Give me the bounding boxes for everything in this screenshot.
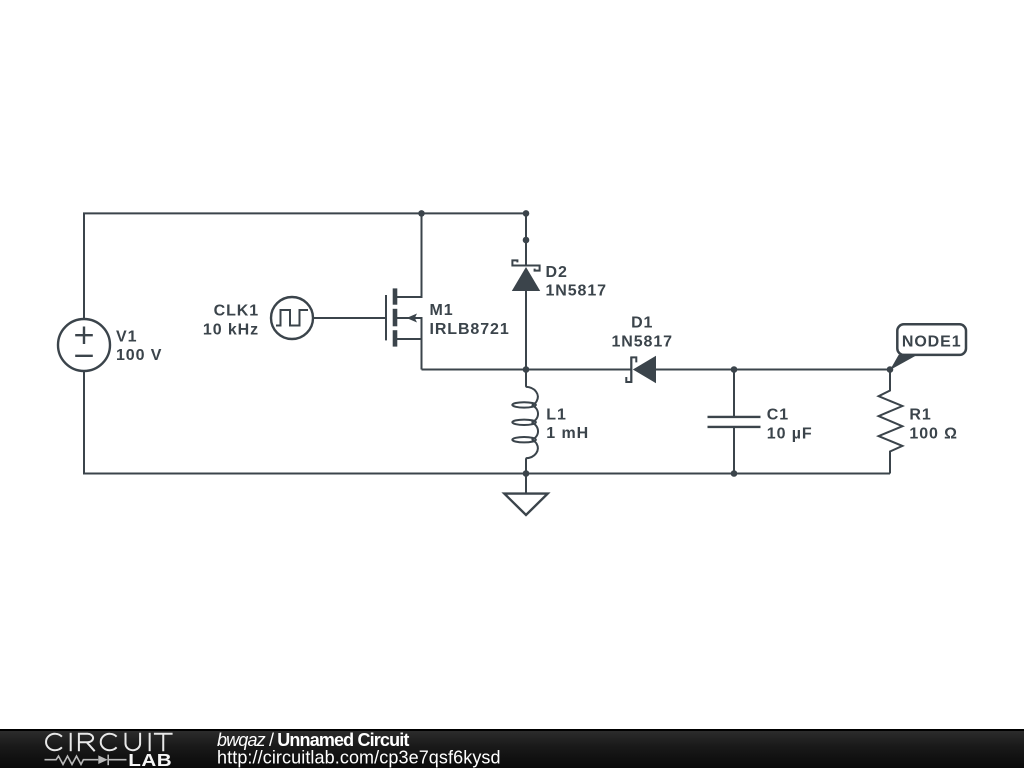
svg-text:D1: D1	[631, 314, 653, 331]
svg-text:NODE1: NODE1	[902, 334, 962, 351]
svg-text:1 mH: 1 mH	[546, 425, 589, 442]
diode D1	[626, 356, 656, 383]
wire top rail	[84, 213, 526, 319]
logo wire art	[45, 755, 127, 766]
junction C1 top	[731, 366, 738, 373]
voltage source V1	[58, 319, 110, 371]
svg-text:http://circuitlab.com/cp3e7qsf: http://circuitlab.com/cp3e7qsf6kysd	[217, 748, 501, 768]
junction L1 bottom / ground	[523, 470, 530, 477]
svg-text:C1: C1	[767, 407, 789, 424]
wire mid rail right	[656, 369, 890, 371]
junction R1 top / NODE1	[887, 366, 894, 373]
label C1	[767, 407, 813, 443]
svg-text:R1: R1	[909, 407, 931, 424]
wire left rail bottom	[84, 371, 526, 474]
svg-text:V1: V1	[116, 328, 137, 345]
svg-text:1N5817: 1N5817	[546, 282, 607, 299]
svg-text:D2: D2	[546, 264, 568, 281]
junction M1 drain to top rail	[418, 210, 425, 217]
svg-text:CLK1: CLK1	[214, 303, 259, 320]
logo LAB text	[128, 751, 172, 768]
resistor R1	[879, 370, 903, 474]
footer title text	[217, 730, 409, 750]
label V1	[116, 328, 162, 364]
inductor L1	[512, 370, 538, 474]
diode D2	[512, 213, 540, 369]
svg-text:1N5817: 1N5817	[611, 334, 672, 351]
ground	[504, 474, 547, 516]
junction top rail corner	[523, 210, 530, 217]
svg-text:100 Ω: 100 Ω	[909, 425, 957, 442]
footer url text	[217, 748, 501, 768]
junction C1 bottom	[731, 470, 738, 477]
wire gate	[313, 317, 386, 319]
logo CIRCUIT text	[46, 733, 173, 751]
svg-text:IRLB8721: IRLB8721	[430, 321, 510, 338]
capacitor C1	[708, 370, 761, 474]
junction D2 cathode terminal	[523, 237, 530, 244]
junction node mid rail / D2 / L1	[523, 366, 530, 373]
label L1	[546, 406, 589, 442]
svg-text:100 V: 100 V	[116, 347, 162, 364]
node flag NODE1	[890, 324, 966, 370]
svg-text:LAB: LAB	[128, 751, 172, 768]
label D2	[546, 264, 607, 300]
svg-text:L1: L1	[546, 406, 566, 423]
label M1	[430, 302, 510, 338]
svg-text:M1: M1	[430, 302, 454, 319]
transistor M1	[386, 213, 422, 369]
footer bar	[0, 729, 1024, 768]
label CLK1	[203, 303, 259, 339]
label NODE1	[902, 334, 962, 351]
label D1	[611, 314, 672, 350]
svg-text:10 µF: 10 µF	[767, 425, 813, 442]
wire mid rail	[422, 369, 632, 371]
clock source CLK1	[271, 297, 313, 339]
wire bottom rail	[526, 473, 890, 475]
label R1	[909, 407, 957, 443]
svg-text:10 kHz: 10 kHz	[203, 322, 259, 339]
